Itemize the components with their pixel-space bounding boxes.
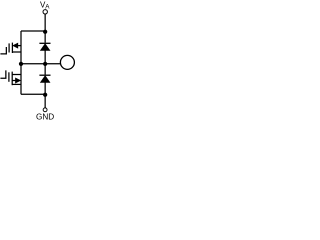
wire mid rail to pad [21, 63, 60, 65]
wire bottom rail [21, 93, 45, 95]
wire to GND terminal [44, 95, 46, 108]
node VA label [40, 1, 50, 11]
wire VA terminal to node A [44, 14, 46, 32]
junction dot on left bus [19, 62, 23, 66]
GND label [36, 112, 54, 121]
diode D2 [39, 75, 50, 94]
node B junction dot (pad node) [43, 62, 47, 66]
diode D1 [39, 43, 50, 64]
wire center column upper [44, 32, 46, 43]
wire left bus [20, 31, 22, 94]
pad circle [60, 55, 74, 69]
transistor Q1 [0, 43, 21, 54]
svg-text:GND: GND [36, 112, 54, 121]
terminal GND [43, 108, 47, 112]
wire center column mid [44, 64, 46, 75]
transistor Q2 [0, 70, 21, 85]
terminal VA [43, 10, 47, 14]
wire top rail [21, 30, 45, 32]
node A junction dot [43, 30, 47, 34]
node GND junction dot [43, 93, 47, 97]
